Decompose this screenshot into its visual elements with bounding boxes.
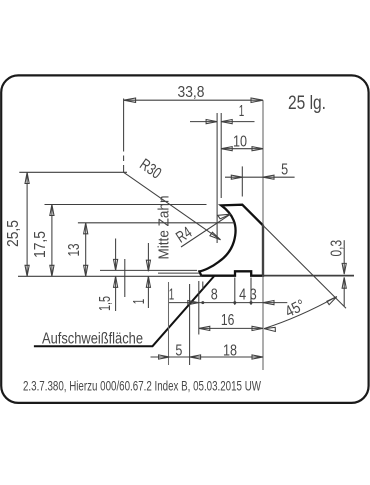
dimension 5 and 18 bottom row	[151, 355, 264, 359]
svg-text:25 lg.: 25 lg.	[288, 93, 326, 114]
extension line bottom face left (baseline)	[18, 275, 202, 277]
svg-text:17,5: 17,5	[32, 231, 49, 258]
svg-text:33,8: 33,8	[178, 84, 205, 101]
wire: short vertical line x=124.8	[124, 259, 126, 297]
dimension 1,5 vertical small	[114, 239, 118, 312]
Mitte Zahn double lines	[216, 113, 218, 243]
svg-text:18: 18	[223, 343, 237, 360]
dimension 13 vertical	[84, 223, 88, 276]
svg-text:1: 1	[131, 299, 148, 305]
extension line notch level left	[100, 269, 197, 271]
svg-text:1: 1	[169, 286, 175, 303]
dimension 16	[199, 326, 263, 330]
svg-text:R4: R4	[173, 224, 195, 246]
extension line bottom face right	[263, 275, 354, 277]
weld surface line (diagonal + horizontal under Aufschweissflaeche)	[34, 276, 214, 346]
svg-text:0,3: 0,3	[329, 240, 346, 257]
chain dimension row 1 8 4 3	[169, 301, 288, 305]
angle dimension 45 deg arc	[264, 297, 337, 332]
dimension 10	[221, 147, 263, 151]
dimension 33,8 top	[124, 98, 263, 172]
dimension 5 (chamfer width)	[225, 166, 295, 196]
leader R4 with arrow	[181, 214, 231, 247]
dimension 1 vertical small	[146, 243, 150, 308]
svg-text:Mitte Zahn: Mitte Zahn	[156, 196, 173, 260]
svg-text:10: 10	[233, 133, 247, 150]
svg-text:5: 5	[175, 343, 182, 360]
svg-text:13: 13	[66, 243, 83, 256]
svg-text:16: 16	[221, 312, 235, 329]
dimension 0,3 right	[342, 240, 346, 306]
wire: extension line right edge x=263	[262, 100, 264, 370]
extension line top flat (17,5 ref)	[45, 204, 207, 206]
leader R30 with arrow	[124, 172, 221, 240]
svg-text:25,5: 25,5	[5, 220, 22, 247]
svg-text:R30: R30	[136, 156, 164, 183]
extension lines for bottom 5 and 18	[168, 282, 170, 365]
svg-text:5: 5	[281, 161, 288, 178]
extension line top of tooth (25,5 ref)	[19, 171, 127, 173]
svg-text:4: 4	[239, 286, 246, 303]
dimension 17,5 vertical	[50, 205, 54, 277]
thin 45deg reference diagonal	[264, 226, 346, 308]
svg-text:8: 8	[211, 286, 218, 303]
extension line chamfer base (13 ref)	[78, 222, 234, 224]
dimension 25,5 vertical	[25, 173, 29, 277]
part: tooth profile outline	[199, 205, 263, 276]
extension lines below part for chain	[199, 278, 251, 335]
svg-text:45°: 45°	[283, 297, 309, 321]
dimension 1 (tooth tip width)	[190, 120, 255, 124]
svg-text:Aufschweißfläche: Aufschweißfläche	[42, 331, 143, 348]
svg-text:1: 1	[239, 103, 245, 120]
border frame of drawing sheet	[1, 75, 368, 403]
svg-text:1,5: 1,5	[97, 296, 114, 311]
svg-text:2.3.7.380, Hierzu 000/60.67.2: 2.3.7.380, Hierzu 000/60.67.2 Index B, 0…	[23, 378, 261, 393]
extension line root level left	[158, 272, 199, 274]
